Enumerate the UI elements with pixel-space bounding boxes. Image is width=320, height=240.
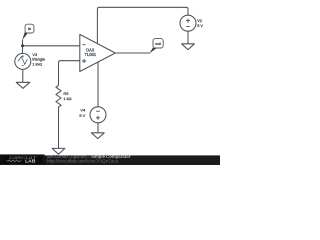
V2 minus mark xyxy=(186,25,190,27)
svg-text:1 kΩ: 1 kΩ xyxy=(63,96,71,101)
logo resistor zigzag xyxy=(6,160,21,162)
op-amp OA3 triangle xyxy=(80,34,116,71)
op-amp minus input mark xyxy=(83,44,86,46)
ground under V3 xyxy=(16,82,30,88)
svg-text:5 V: 5 V xyxy=(197,23,203,28)
wire op-amp V+ pin to top rail to V2 xyxy=(97,7,188,44)
V4 minus mark xyxy=(96,110,100,112)
svg-text:V4: V4 xyxy=(80,107,86,112)
svg-text:5 V: 5 V xyxy=(79,113,85,118)
voltage source V4 xyxy=(90,107,106,123)
op-amp plus input mark xyxy=(82,59,86,63)
net flag "in" pointer xyxy=(22,32,27,40)
V3 minus mark xyxy=(22,65,24,67)
wire op-amp noninverting input to R5 top corner xyxy=(59,61,80,86)
watermark bar xyxy=(0,155,220,165)
svg-text:http://circuitlab.com/cme7r3Qn: http://circuitlab.com/cme7r3Qn7aca xyxy=(47,159,119,164)
wire V4 bottom to ground xyxy=(97,123,99,133)
voltage source V3 (triangle function generator) xyxy=(15,53,31,69)
svg-text:in: in xyxy=(28,27,31,31)
ground under V4 xyxy=(91,133,104,139)
wire op-amp V- pin to V4 top xyxy=(97,62,99,107)
voltage source V2 xyxy=(180,15,196,31)
wire node to op-amp inverting input xyxy=(23,45,80,47)
wire R5 bottom to ground xyxy=(58,107,60,148)
net flag "out" box xyxy=(153,39,163,48)
svg-text:out: out xyxy=(155,42,161,46)
net flag "out" pointer xyxy=(150,48,158,54)
V2 plus mark xyxy=(186,19,190,23)
wire flag-in to V3 top (node column) xyxy=(22,40,24,53)
wire V2 bottom to ground xyxy=(187,31,189,44)
node A junction dot xyxy=(21,44,24,47)
svg-text:1 kHz: 1 kHz xyxy=(32,62,42,67)
CircuitLab logo box xyxy=(0,154,45,165)
ground under R5 xyxy=(52,148,65,154)
svg-text:LAB: LAB xyxy=(25,159,35,164)
wire V3 bottom to ground xyxy=(22,69,24,82)
net flag "in" box xyxy=(25,24,34,33)
ground under V2 xyxy=(182,44,195,50)
svg-text:R5: R5 xyxy=(63,91,68,96)
V3 plus mark xyxy=(22,55,24,57)
resistor R5 xyxy=(56,85,61,107)
V4 plus mark xyxy=(96,116,100,120)
wire op-amp output to flag out xyxy=(115,52,149,54)
svg-text:TL081: TL081 xyxy=(85,52,97,57)
V3 triangle-wave glyph xyxy=(18,56,27,64)
